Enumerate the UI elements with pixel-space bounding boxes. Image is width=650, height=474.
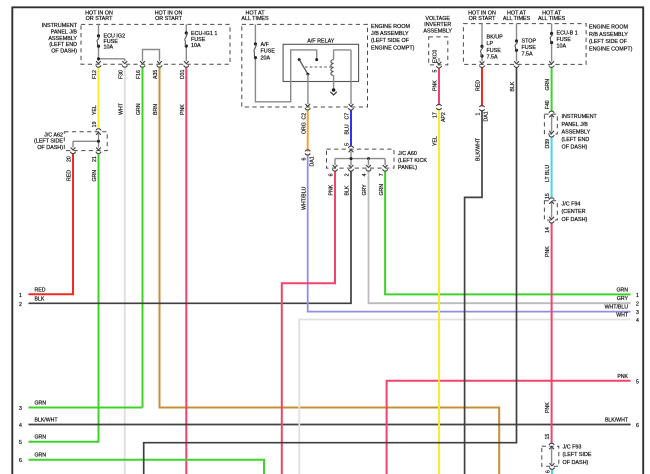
svg-text:EXC0: EXC0	[433, 50, 439, 64]
svg-text:AP2: AP2	[441, 112, 447, 122]
svg-text:INVERTER: INVERTER	[424, 22, 451, 28]
svg-text:GRN: GRN	[92, 170, 98, 182]
svg-text:(LEFT END: (LEFT END	[49, 42, 77, 48]
svg-text:GRN: GRN	[35, 453, 47, 459]
svg-text:ASSEMBLY: ASSEMBLY	[48, 36, 77, 42]
svg-text:OF DASH): OF DASH)	[563, 460, 589, 466]
svg-text:6: 6	[301, 158, 307, 161]
svg-text:19: 19	[92, 121, 98, 127]
svg-text:J/C A60: J/C A60	[398, 151, 417, 157]
svg-text:21: 21	[92, 156, 98, 162]
svg-text:5: 5	[345, 143, 351, 146]
svg-text:INSTRUMENT: INSTRUMENT	[562, 114, 598, 120]
svg-text:YEL: YEL	[433, 136, 439, 146]
svg-text:ECU-B 1: ECU-B 1	[557, 31, 578, 37]
svg-text:GRY: GRY	[617, 296, 629, 302]
svg-text:J/C F93: J/C F93	[563, 445, 582, 451]
svg-text:GRN: GRN	[136, 103, 142, 115]
svg-text:C7: C7	[345, 113, 351, 120]
svg-text:BLK: BLK	[345, 185, 351, 195]
svg-text:RED: RED	[476, 80, 482, 91]
svg-text:PANEL): PANEL)	[398, 165, 417, 171]
svg-text:BLU: BLU	[345, 124, 351, 134]
svg-text:7.5A: 7.5A	[522, 52, 533, 58]
svg-text:(LEFT END: (LEFT END	[562, 137, 590, 143]
svg-text:J/B ASSEMBLY: J/B ASSEMBLY	[371, 31, 409, 37]
svg-text:5: 5	[636, 379, 639, 385]
svg-text:BLK: BLK	[510, 81, 516, 91]
svg-text:PNK: PNK	[617, 374, 628, 380]
svg-text:PNK: PNK	[180, 104, 186, 115]
svg-text:(LEFT SIDE OF: (LEFT SIDE OF	[589, 39, 628, 45]
svg-text:FUSE: FUSE	[487, 48, 502, 54]
svg-text:1: 1	[636, 293, 639, 299]
svg-text:10A: 10A	[191, 43, 201, 49]
svg-text:ASSEMBLY: ASSEMBLY	[562, 129, 591, 135]
svg-text:(LEFT SIDE: (LEFT SIDE	[563, 452, 592, 458]
svg-text:4: 4	[19, 423, 22, 429]
svg-text:(CENTER: (CENTER	[562, 209, 586, 215]
svg-text:14: 14	[545, 227, 551, 233]
svg-text:5: 5	[19, 440, 22, 446]
svg-text:1: 1	[476, 113, 482, 116]
svg-text:GRN: GRN	[545, 79, 551, 91]
svg-text:2: 2	[19, 302, 22, 308]
svg-text:20: 20	[67, 156, 73, 162]
svg-text:GRN: GRN	[35, 435, 47, 441]
svg-text:R/B ASSEMBLY: R/B ASSEMBLY	[589, 32, 628, 38]
svg-text:D39: D39	[545, 139, 551, 149]
svg-text:PNK: PNK	[433, 80, 439, 91]
svg-text:OR START: OR START	[469, 16, 496, 22]
svg-text:10A: 10A	[557, 44, 567, 50]
svg-text:3: 3	[636, 310, 639, 316]
svg-text:2: 2	[345, 173, 351, 176]
svg-text:GRN: GRN	[616, 287, 628, 293]
svg-text:ORG: ORG	[301, 122, 307, 134]
svg-text:6: 6	[329, 173, 335, 176]
svg-text:BRN: BRN	[153, 104, 159, 115]
svg-text:6: 6	[636, 423, 639, 429]
svg-text:A/F RELAY: A/F RELAY	[307, 39, 335, 45]
svg-text:WHT/BLU: WHT/BLU	[301, 186, 307, 210]
svg-text:2: 2	[636, 302, 639, 308]
svg-text:15: 15	[545, 434, 551, 440]
svg-text:GRN: GRN	[379, 184, 385, 196]
svg-text:STOP: STOP	[522, 38, 537, 44]
svg-text:WHT: WHT	[119, 102, 125, 115]
svg-text:1: 1	[19, 293, 22, 299]
svg-text:RED: RED	[35, 287, 46, 293]
svg-text:VOLTAGE: VOLTAGE	[425, 16, 450, 22]
svg-text:DA1: DA1	[484, 111, 490, 121]
svg-text:BLK: BLK	[35, 296, 45, 302]
svg-text:BLK/WHT: BLK/WHT	[476, 137, 482, 161]
svg-text:F16: F16	[136, 70, 142, 79]
svg-text:7: 7	[379, 173, 385, 176]
svg-text:OF DASH): OF DASH)	[37, 145, 63, 151]
svg-text:DA1: DA1	[309, 156, 315, 166]
svg-text:LT BLU: LT BLU	[545, 165, 551, 182]
svg-text:PNK: PNK	[545, 402, 551, 413]
svg-text:ENGINE ROOM: ENGINE ROOM	[371, 24, 410, 30]
svg-text:6: 6	[19, 458, 22, 464]
svg-text:A/F: A/F	[261, 42, 270, 48]
svg-text:ALL TIMES: ALL TIMES	[241, 16, 269, 22]
svg-text:FUSE: FUSE	[522, 45, 537, 51]
svg-text:FUSE: FUSE	[557, 37, 572, 43]
svg-text:(LEFT SIDE OF: (LEFT SIDE OF	[371, 38, 410, 44]
svg-text:BLK/WHT: BLK/WHT	[35, 418, 59, 424]
svg-text:F12: F12	[92, 70, 98, 79]
svg-text:7.5A: 7.5A	[487, 55, 498, 61]
svg-text:OR START: OR START	[155, 16, 182, 22]
svg-text:BLK/WHT: BLK/WHT	[605, 418, 629, 424]
svg-text:ALL TIMES: ALL TIMES	[538, 16, 566, 22]
svg-text:GRN: GRN	[35, 401, 47, 407]
svg-text:6: 6	[546, 470, 552, 473]
svg-text:F40: F40	[545, 100, 551, 109]
svg-text:OF DASH): OF DASH)	[51, 48, 77, 54]
svg-text:(LEFT SIDE: (LEFT SIDE	[34, 139, 63, 145]
svg-text:YEL: YEL	[92, 105, 98, 115]
svg-text:PANEL J/B: PANEL J/B	[51, 30, 78, 36]
svg-text:OF DASH): OF DASH)	[562, 217, 588, 223]
svg-text:FUSE: FUSE	[261, 49, 276, 55]
svg-text:WHT: WHT	[616, 313, 629, 319]
svg-text:20A: 20A	[261, 56, 271, 62]
svg-text:PNK: PNK	[545, 246, 551, 257]
svg-text:F30: F30	[119, 70, 125, 79]
svg-text:PNK: PNK	[329, 184, 335, 195]
svg-text:15: 15	[545, 193, 551, 199]
svg-text:17: 17	[433, 112, 439, 118]
svg-text:3: 3	[19, 406, 22, 412]
svg-text:ENGINE COMPT): ENGINE COMPT)	[589, 47, 633, 53]
svg-text:(LEFT KICK: (LEFT KICK	[398, 158, 427, 164]
svg-text:D31: D31	[180, 69, 186, 79]
svg-text:OF DASH): OF DASH)	[562, 145, 588, 151]
svg-text:INSTRUMENT: INSTRUMENT	[42, 23, 78, 29]
svg-text:4: 4	[362, 173, 368, 176]
svg-text:ENGINE COMPT): ENGINE COMPT)	[371, 45, 415, 51]
svg-text:A35: A35	[153, 70, 159, 79]
svg-text:J/C A62: J/C A62	[44, 133, 63, 139]
svg-text:J/C F94: J/C F94	[562, 202, 581, 208]
svg-text:RED: RED	[67, 170, 73, 181]
svg-text:ASSEMBLY: ASSEMBLY	[423, 28, 452, 34]
svg-text:OR START: OR START	[86, 16, 113, 22]
svg-text:GRY: GRY	[362, 184, 368, 196]
svg-text:ALL TIMES: ALL TIMES	[503, 16, 531, 22]
svg-text:WHT/BLU: WHT/BLU	[605, 305, 629, 311]
svg-text:LP: LP	[487, 41, 494, 47]
svg-text:5: 5	[433, 70, 439, 73]
svg-text:C2: C2	[301, 113, 307, 120]
svg-text:ENGINE ROOM: ENGINE ROOM	[589, 24, 628, 30]
svg-text:BK/UP: BK/UP	[487, 34, 504, 40]
svg-text:4: 4	[636, 318, 639, 324]
svg-text:10A: 10A	[104, 45, 114, 51]
svg-text:PANEL J/B: PANEL J/B	[562, 122, 589, 128]
